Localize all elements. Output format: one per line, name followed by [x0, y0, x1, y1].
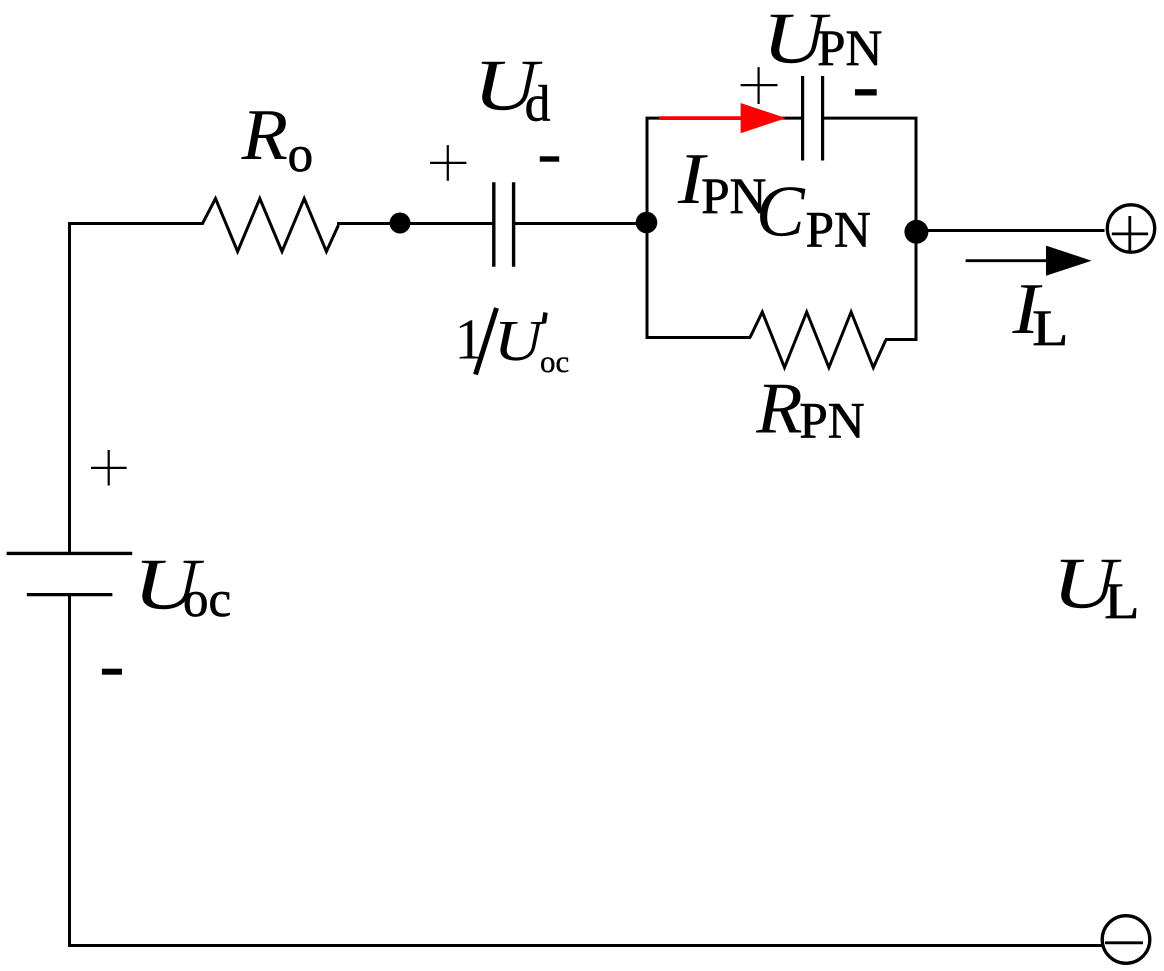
label C_PN	[756, 171, 806, 252]
svg-text:o: o	[288, 127, 314, 183]
node dot 1	[390, 213, 411, 234]
label I_PN	[677, 138, 709, 219]
svg-text:L: L	[1104, 574, 1139, 630]
parallel network right vertical wire	[915, 117, 918, 340]
plus mark near battery	[91, 450, 127, 486]
node dot 2	[636, 212, 658, 234]
svg-text:R: R	[241, 94, 288, 175]
svg-text:L: L	[1032, 301, 1068, 357]
wire: left vertical upper (top-left corner down to battery)	[68, 222, 71, 553]
wire: resistor to capacitor Ud	[337, 222, 493, 225]
terminal plus circle	[1107, 205, 1154, 252]
svg-text:PN: PN	[806, 202, 871, 258]
output wire to plus terminal	[917, 229, 1105, 232]
minus mark near battery	[102, 669, 122, 675]
label U_oc	[133, 543, 204, 624]
bottom branch left wire	[646, 336, 752, 339]
svg-text:PN: PN	[799, 393, 864, 449]
capacitor Ud plates	[492, 182, 495, 267]
resistor R_o zigzag	[202, 199, 339, 252]
wire: capacitor Ud to node 2	[515, 222, 648, 225]
svg-text:oc: oc	[540, 344, 569, 379]
svg-text:PN: PN	[817, 21, 882, 77]
parallel network left vertical wire	[646, 117, 649, 339]
red current arrow I_PN	[659, 103, 786, 133]
wire: bottom horizontal	[68, 944, 1103, 947]
svg-text:C: C	[756, 171, 806, 252]
battery U_oc top plate	[7, 552, 133, 555]
svg-text:oc: oc	[183, 572, 231, 628]
wire: left vertical lower (battery to bottom-left corner)	[68, 595, 71, 947]
top branch left wire	[646, 117, 802, 120]
label R_o	[241, 94, 288, 175]
wire: top-left horizontal	[68, 222, 203, 225]
bottom branch right stub	[885, 338, 918, 341]
plus mark near Ud	[430, 145, 466, 181]
node dot 3	[904, 220, 928, 244]
label U_PN	[762, 0, 830, 78]
svg-text:R: R	[755, 368, 802, 449]
label R_PN	[755, 368, 802, 449]
capacitor C_PN plates	[801, 76, 804, 161]
terminal minus circle	[1102, 916, 1150, 964]
label U_L	[1052, 542, 1122, 623]
resistor R_PN zigzag	[750, 312, 886, 368]
label I_L	[1011, 268, 1043, 349]
minus mark near C_PN	[855, 89, 877, 95]
minus mark near Ud	[540, 156, 559, 161]
load current arrow I_L	[966, 246, 1092, 276]
battery U_oc bottom plate	[27, 593, 113, 596]
label U_d	[473, 45, 543, 126]
svg-text:d: d	[525, 76, 551, 132]
plus mark near C_PN	[741, 67, 778, 104]
top branch right wire	[824, 117, 918, 120]
